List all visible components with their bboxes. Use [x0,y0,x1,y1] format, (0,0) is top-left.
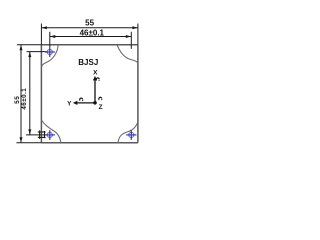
dimension top 55: extension lines [41,24,137,45]
svg-text:Y: Y [67,101,72,108]
hole bottom-right: circle [129,132,134,137]
dimension left 55: line [20,45,22,143]
theta-y rotation mark [80,98,83,101]
axis Y line [77,102,95,104]
svg-text:Z: Z [99,104,103,111]
hole bottom-left: circle [47,132,52,137]
dimension left 46±0.1: arrows [28,52,31,135]
dimension left 55: arrows [20,45,23,143]
corner notch top-right [117,45,138,63]
svg-text:X: X [93,70,98,77]
hole bottom-left: blue crosshair [45,130,55,140]
axis X arrowhead [93,76,97,81]
axis origin dot [93,101,97,105]
hole bottom-right: blue crosshair [126,130,136,140]
dimension left 46±0.1: extension lines [26,52,46,135]
hole top-left: blue crosshair [45,47,55,57]
dimension top 55: arrows [41,26,137,29]
dimension top 46±0.1: arrows [50,35,132,38]
dimension left 55: extension lines [16,45,41,143]
axis X line [94,80,96,103]
axis Y arrowhead [73,101,78,105]
theta-x rotation mark [96,78,99,81]
dimension left 46±0.1: line [29,52,31,135]
corner notch bottom-right [118,122,138,143]
svg-text:55: 55 [85,18,94,27]
dimension top 55: line [41,27,137,29]
svg-text:46±0.1: 46±0.1 [21,88,28,110]
plate outline square [41,45,137,143]
svg-text:46±0.1: 46±0.1 [80,29,105,38]
dimension top 46±0.1: line [50,36,132,38]
svg-text:BJSJ: BJSJ [78,58,98,67]
corner notch top-left [41,45,58,67]
hole top-left: circle [47,49,52,54]
theta-z rotation mark [99,97,102,100]
dimension top 46±0.1: extension lines [50,32,132,49]
hatch marks near bottom-left hole [38,130,46,138]
corner notch bottom-left [41,120,61,143]
